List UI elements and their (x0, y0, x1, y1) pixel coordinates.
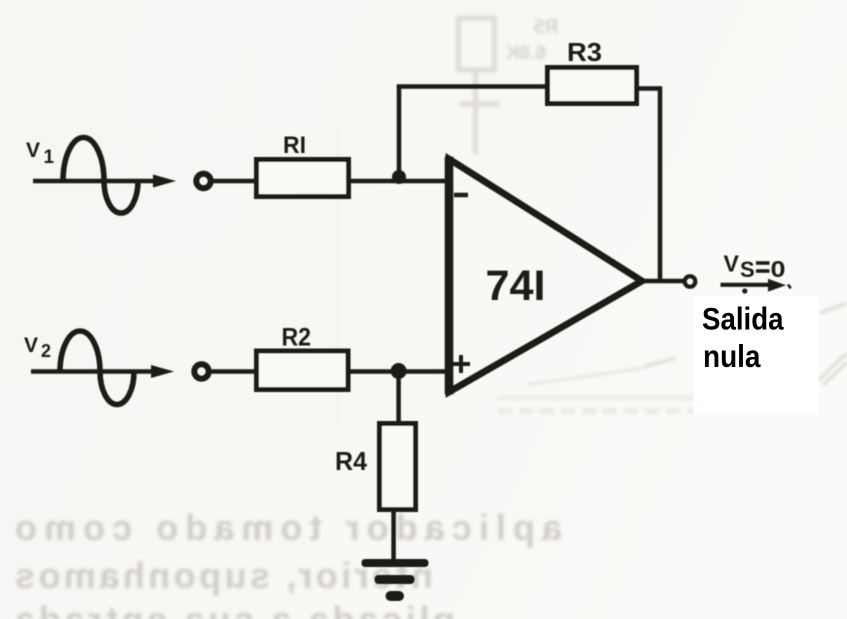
svg-text:2: 2 (41, 341, 51, 361)
output wire (643, 279, 683, 284)
wire node A to op-amp inverting input (399, 179, 450, 184)
V2 signal arrow (31, 365, 174, 378)
feedback wire top (397, 84, 545, 89)
resistor R3 (548, 68, 637, 104)
feedback wire up (397, 87, 402, 180)
node A junction dot (392, 170, 406, 184)
svg-text:74I: 74I (486, 263, 546, 310)
svg-text:aplicador tomado como: aplicador tomado como (15, 507, 562, 548)
svg-text:6.8K: 6.8K (506, 43, 546, 64)
V2 sine wave (60, 331, 134, 405)
label V1 (26, 139, 55, 168)
V1 sine wave (63, 138, 138, 214)
scanner streaks right edge (818, 303, 847, 385)
wire R4 to ground (391, 509, 396, 559)
svg-text:RI: RI (283, 132, 306, 159)
ghost text R5 / 6.8K (mirrored) (506, 17, 558, 64)
output terminal (685, 276, 696, 287)
ghost paragraph (mirrored) (14, 507, 562, 619)
caption Salida nula (702, 301, 784, 375)
ghost resistor R5 (mirrored bleed) (459, 18, 500, 154)
streaks under op-amp (528, 358, 676, 384)
V1 signal arrow (33, 175, 176, 188)
wire R2 to node B (348, 369, 399, 374)
svg-text:R4: R4 (335, 446, 368, 476)
wire R3 to corner (637, 86, 661, 91)
svg-text:R3: R3 (567, 39, 602, 67)
output arrow (721, 279, 791, 294)
svg-text:V: V (724, 251, 740, 277)
wire node B to op-amp non-inverting input (399, 369, 450, 374)
paper crease (336, 125, 339, 425)
inverting input minus (454, 193, 468, 198)
feedback wire down to output (658, 86, 663, 281)
svg-text:R2: R2 (282, 324, 312, 352)
svg-text:0: 0 (771, 256, 786, 282)
resistor R4 (380, 424, 416, 510)
wire terminal to R1 (211, 179, 254, 184)
svg-text:Salida: Salida (702, 301, 784, 337)
input terminal V2 (194, 364, 208, 378)
ghost watermark bands (497, 395, 694, 401)
svg-text:nula: nula (703, 338, 761, 374)
label Vs=0 (724, 251, 786, 283)
input terminal V1 (196, 174, 210, 188)
node B junction dot (391, 363, 407, 379)
svg-text:V: V (26, 139, 40, 162)
svg-text:V: V (24, 334, 38, 357)
resistor R2 (257, 351, 349, 390)
wire terminal to R2 (209, 369, 254, 374)
wire node B down to R4 (396, 371, 401, 423)
ground (362, 559, 429, 601)
svg-text:1: 1 (44, 147, 55, 168)
svg-text:S: S (740, 257, 755, 282)
non-inverting input plus (452, 355, 470, 373)
op-amp U1 (741) (449, 159, 642, 392)
svg-text:plicada a sua entrada: plicada a sua entrada (14, 599, 455, 619)
resistor R1 (257, 160, 349, 197)
wire R1 to node A (351, 179, 399, 184)
label V2 (24, 334, 51, 361)
white patch (694, 296, 819, 415)
svg-text:R5: R5 (533, 17, 558, 38)
